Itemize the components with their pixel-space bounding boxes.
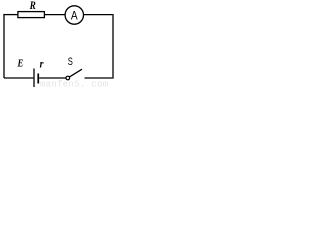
resistor R box xyxy=(18,12,45,18)
wire bottom right xyxy=(85,77,113,79)
svg-text:S: S xyxy=(68,54,73,67)
svg-text:manfen5. com: manfen5. com xyxy=(40,80,108,89)
wire resistor to ammeter xyxy=(44,14,65,16)
wire left vertical xyxy=(3,14,5,78)
svg-text:R: R xyxy=(29,0,36,12)
svg-text:E: E xyxy=(17,58,24,70)
label S xyxy=(68,54,73,67)
wire switch to battery xyxy=(39,77,66,79)
battery short plate xyxy=(37,74,39,84)
switch blade xyxy=(70,69,83,77)
wire top-left xyxy=(3,14,18,16)
label r xyxy=(40,58,45,71)
battery long plate xyxy=(33,69,35,88)
switch pivot circle xyxy=(66,76,70,80)
wire right vertical xyxy=(112,14,114,79)
svg-text:A: A xyxy=(71,10,78,23)
label R xyxy=(29,0,36,12)
label E xyxy=(17,58,24,70)
background xyxy=(0,0,117,88)
ammeter circle xyxy=(65,6,83,24)
wire battery to left corner xyxy=(4,77,33,79)
wire ammeter to right corner xyxy=(84,14,113,16)
ammeter letter A xyxy=(71,10,78,23)
